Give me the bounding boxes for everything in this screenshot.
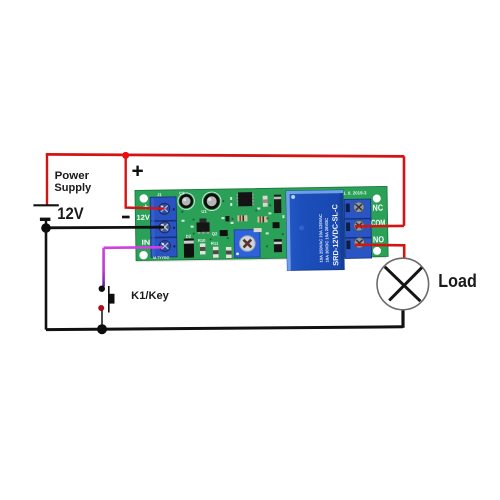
screw NC xyxy=(353,202,364,213)
diode D3 xyxy=(274,239,282,252)
screw 12V xyxy=(159,203,170,214)
screw GND xyxy=(159,222,170,233)
capacitor C4 xyxy=(202,192,221,211)
svg-text:R10: R10 xyxy=(198,238,206,243)
diode D1 xyxy=(274,195,281,214)
svg-text:K1/Key: K1/Key xyxy=(131,290,169,302)
svg-text:Supply: Supply xyxy=(54,182,92,194)
label minus xyxy=(122,216,130,219)
resistor R2 xyxy=(257,216,267,222)
svg-text:SRD-12VDC-SL-C: SRD-12VDC-SL-C xyxy=(330,203,340,265)
mounting hole bottom-left xyxy=(139,251,148,260)
terminal block output xyxy=(344,199,371,258)
resistor R10 xyxy=(200,243,206,254)
svg-text:J1: J1 xyxy=(157,192,162,197)
svg-text:M.TYYBO: M.TYYBO xyxy=(153,256,170,260)
wire red V+ right drop xyxy=(403,156,406,226)
wire black negative bus left drop xyxy=(45,228,48,330)
svg-text:12V: 12V xyxy=(57,205,84,223)
label plus xyxy=(132,166,142,176)
relay timer module PCB xyxy=(135,186,388,272)
switch K1 lever xyxy=(108,286,110,313)
IC U1 xyxy=(201,192,254,214)
resistor R11 xyxy=(213,247,219,258)
capacitor C3 xyxy=(178,193,195,210)
svg-text:12V: 12V xyxy=(137,213,151,222)
PCB shadow xyxy=(136,257,386,261)
wire red NO to load xyxy=(355,245,404,260)
wire black to module GND terminal xyxy=(46,226,164,229)
transistor Q3 xyxy=(273,222,280,228)
screw NO xyxy=(354,238,365,249)
wire red battery positive drop xyxy=(46,154,48,205)
transistor Q1 xyxy=(196,218,209,234)
mounting hole top-right xyxy=(373,194,381,202)
silkscreen plus mark xyxy=(143,204,148,209)
svg-text:IN: IN xyxy=(141,238,150,247)
vias xyxy=(181,199,284,249)
capacitor C5 smd xyxy=(263,196,268,207)
switch K1 bottom contact xyxy=(98,305,104,311)
wire black load riser xyxy=(401,309,404,328)
wire black bottom bus xyxy=(46,327,403,330)
screw COM xyxy=(354,220,365,231)
svg-text:Q2: Q2 xyxy=(212,231,218,236)
svg-text:U1: U1 xyxy=(201,209,207,214)
mounting hole bottom-right xyxy=(373,247,381,255)
svg-text:NC: NC xyxy=(372,203,383,213)
junction switch-bus node xyxy=(97,324,107,334)
wire black battery negative stub xyxy=(45,221,47,229)
switch K1 top contact xyxy=(99,286,105,292)
wire switch to bus xyxy=(101,311,103,326)
junction black negative node xyxy=(41,223,51,233)
wire red COM feed xyxy=(355,225,404,228)
resistor R1 xyxy=(237,215,247,221)
wire red branch to module 12V terminal xyxy=(126,155,165,209)
resistor R13 xyxy=(225,216,229,222)
svg-text:10A 30VDC 10A 28VDC: 10A 30VDC 10A 28VDC xyxy=(324,218,330,263)
svg-text:NO: NO xyxy=(373,234,384,244)
smd pads texture xyxy=(181,196,285,236)
junction red V+ node xyxy=(122,152,129,159)
load lamp xyxy=(377,258,429,310)
svg-text:Load: Load xyxy=(438,271,477,291)
svg-text:10A 250VAC 10A 125VAC: 10A 250VAC 10A 125VAC xyxy=(318,214,324,263)
svg-text:V1. 0. 2019-3: V1. 0. 2019-3 xyxy=(340,190,367,195)
trimmer potentiometer RP1 xyxy=(234,230,260,258)
resistor R12 xyxy=(226,247,232,258)
battery B1 12V positive plate xyxy=(33,204,58,206)
mounting hole top-left xyxy=(139,194,148,203)
svg-text:R11: R11 xyxy=(211,241,219,246)
svg-text:D2: D2 xyxy=(186,234,192,239)
capacitor C6 smd xyxy=(254,228,262,232)
wire magenta drop to switch xyxy=(102,248,105,287)
relay K1 SRD-12VDC-SL-C xyxy=(286,190,344,270)
svg-text:Power: Power xyxy=(55,170,90,182)
wire magenta module IN horizontal xyxy=(104,246,163,249)
wire red V+ top rail xyxy=(46,154,405,156)
screw IN xyxy=(159,240,170,251)
battery B1 12V negative plate xyxy=(40,218,51,221)
switch K1 button body xyxy=(109,294,114,304)
diode D2 xyxy=(184,239,194,258)
terminal block J1 input xyxy=(150,197,177,257)
